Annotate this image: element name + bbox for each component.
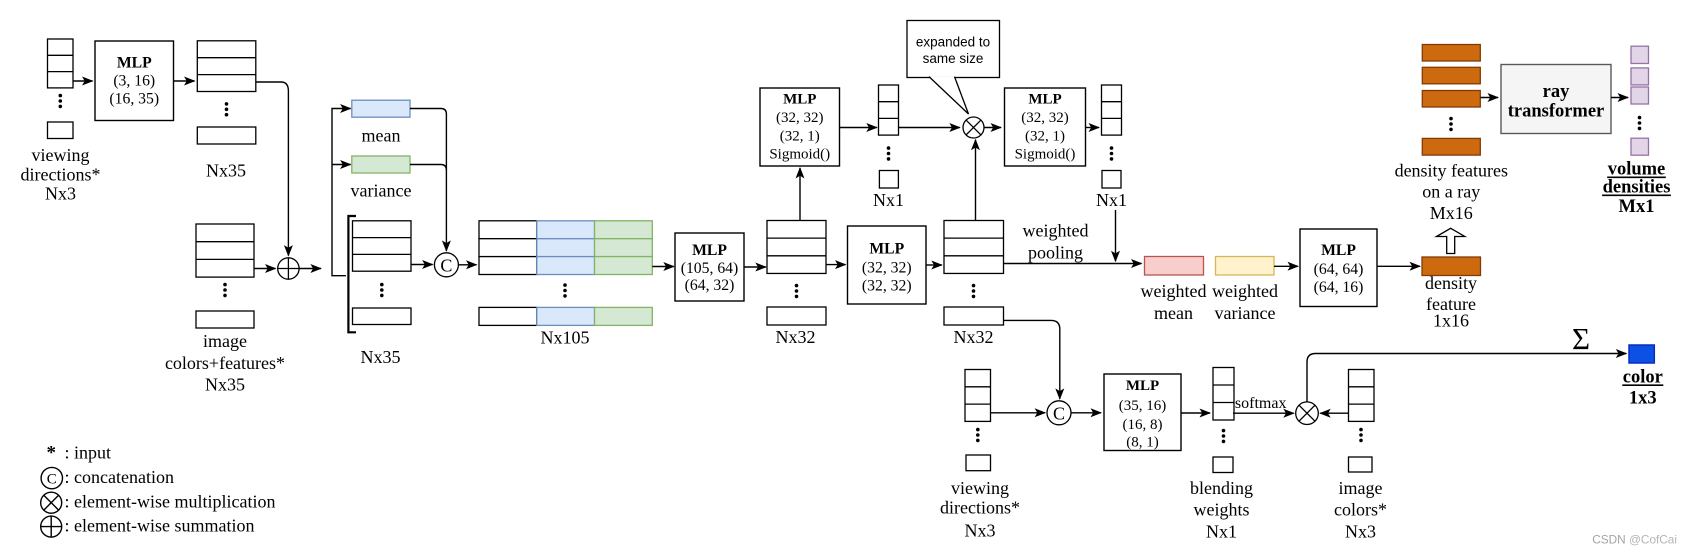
legend: element-wise summation symbol	[41, 516, 255, 538]
underline of volume label	[1607, 176, 1666, 178]
wire: bracketed stack to concatenation node C1	[411, 264, 433, 266]
svg-text:Nx3: Nx3	[1345, 522, 1376, 542]
svg-text:colors*: colors*	[1334, 500, 1387, 520]
svg-text:Nx1: Nx1	[873, 190, 904, 210]
svg-text:MLP: MLP	[1126, 378, 1159, 394]
svg-text:Nx1: Nx1	[1096, 190, 1127, 210]
svg-text:MLP: MLP	[783, 92, 816, 108]
svg-text:variance: variance	[1215, 303, 1276, 323]
svg-text:mean: mean	[1154, 303, 1193, 323]
label: variance	[351, 181, 412, 201]
svg-text:MLP: MLP	[1321, 242, 1356, 259]
MLP U6 (64,64)(64,16)	[1300, 229, 1377, 307]
wire: second Nx1 down to weighted pooling line	[1115, 210, 1117, 261]
wire: trunk branch to variance box	[332, 164, 351, 166]
wire: first Nx32 stack up to sigmoid MLP	[799, 168, 801, 221]
wire: Nx105 to MLP(105,64)(64,32)	[652, 266, 674, 268]
svg-text:(64, 64): (64, 64)	[1314, 261, 1364, 278]
ellipsis under Nx35 stack	[225, 102, 229, 116]
stack: viewing directions input Nx3	[48, 39, 74, 88]
svg-text:Mx1: Mx1	[1619, 197, 1655, 217]
svg-text:same size: same size	[923, 51, 984, 66]
svg-text:(32, 1): (32, 1)	[1025, 129, 1065, 145]
svg-text:weighted: weighted	[1212, 281, 1278, 301]
bracket enclosing Nx35 feature stack	[348, 216, 356, 332]
stack: image colors Nx3	[1349, 370, 1375, 422]
wire: variance box joining the same vertical wire	[410, 165, 446, 171]
svg-text:image: image	[1339, 478, 1383, 498]
svg-text:weighted: weighted	[1023, 221, 1089, 241]
label: weighted variance	[1212, 281, 1278, 323]
legend: * input	[47, 443, 111, 464]
element-wise multiplication node X2	[1296, 402, 1319, 425]
svg-text:ray: ray	[1543, 82, 1570, 102]
svg-text:1x3: 1x3	[1629, 388, 1657, 408]
ellipsis under viewing-directions stack	[59, 94, 63, 108]
wire: multiplication X2 up and right to color box (summation)	[1307, 354, 1626, 402]
wire: MLP(3,16) to Nx35 stack	[174, 80, 195, 82]
ellipsis under first Nx1 stack	[887, 146, 891, 160]
label: Nx32 (first)	[776, 327, 816, 347]
stack: blending weights Nx1	[1213, 368, 1234, 421]
svg-text:(32, 32): (32, 32)	[776, 110, 824, 126]
svg-text:: concatenation: : concatenation	[65, 467, 174, 487]
svg-text:(64, 16): (64, 16)	[1314, 279, 1364, 296]
MLP U5 (32,32)(32,32)	[848, 226, 927, 304]
concatenation node C2	[1047, 401, 1071, 425]
svg-text:mean: mean	[362, 126, 401, 146]
wire: first Nx32 to MLP(32,32)(32,32)	[826, 264, 846, 266]
mean box (blue)	[352, 100, 410, 117]
weighted mean box (pink)	[1145, 257, 1204, 276]
label: blending weights Nx1	[1190, 478, 1253, 542]
wire: MLP(64,64)(64,16) to density feature box	[1377, 265, 1420, 267]
svg-text:Nx35: Nx35	[206, 161, 246, 181]
stack: viewing directions (bottom) Nx3	[965, 370, 991, 422]
wire: concatenation C2 to MLP(35,16)(16,8)(8,1)	[1071, 412, 1101, 414]
stack: image colors+features Nx35	[196, 224, 254, 277]
single box: viewing directions extra row	[48, 122, 74, 139]
wire: sigmoid MLP U4 to second Nx1 stack	[1086, 127, 1100, 129]
ellipsis under blending weights stack	[1222, 429, 1226, 443]
ellipsis under first Nx32 stack	[795, 284, 799, 298]
single box: Nx35 extra row	[197, 127, 256, 144]
element-wise summation node (+)	[278, 258, 299, 279]
svg-text:directions*: directions*	[940, 498, 1020, 518]
single box: image colors+features extra row	[196, 311, 254, 328]
svg-text:(35, 16): (35, 16)	[1119, 398, 1167, 414]
stack: density features on a ray (orange bars)	[1422, 45, 1480, 108]
weighted variance box (yellow)	[1216, 257, 1275, 276]
label: Nx1 (first)	[873, 190, 904, 210]
svg-text:Nx3: Nx3	[965, 521, 996, 541]
svg-text:Nx32: Nx32	[954, 327, 994, 347]
ellipsis in volume densities	[1638, 116, 1642, 130]
svg-text:(64, 32): (64, 32)	[685, 277, 735, 294]
svg-text:(32, 32): (32, 32)	[1021, 110, 1069, 126]
callout: expanded to same size	[907, 21, 1000, 115]
label: density feature 1x16	[1425, 273, 1477, 331]
single box: second Nx1 extra row	[1102, 171, 1121, 189]
svg-text:blending: blending	[1190, 478, 1253, 498]
label: Nx1 (second)	[1096, 190, 1127, 210]
svg-text:weighted: weighted	[1141, 281, 1207, 301]
ellipsis under Nx105 stack	[563, 283, 567, 297]
wire: viewing-directions stack to MLP(3,16)(16,35)	[73, 80, 93, 82]
wire: weighted variance to MLP(64,64)(64,16)	[1274, 265, 1298, 267]
MLP U7 (35,16)(16,8)(8,1)	[1104, 374, 1181, 451]
wire: second Nx32 extra row to concatenation C2	[1003, 320, 1060, 399]
MLP U4 (32,32)(32,1) Sigmoid	[1005, 88, 1086, 166]
ellipsis under second Nx32 stack	[972, 284, 976, 298]
svg-text:Nx35: Nx35	[205, 374, 245, 394]
svg-text:(32, 32): (32, 32)	[862, 260, 912, 277]
ellipsis under bottom viewing-directions stack	[976, 428, 980, 442]
svg-text:*: *	[47, 443, 57, 464]
svg-text:CSDN @CofCai: CSDN @CofCai	[1592, 533, 1677, 547]
svg-text:(16, 35): (16, 35)	[109, 90, 159, 107]
single box: image colors extra row	[1349, 457, 1373, 472]
label: density features on a ray Mx16	[1395, 161, 1508, 224]
single box: bracketed stack extra row	[353, 308, 412, 325]
svg-text:MLP: MLP	[1028, 92, 1061, 108]
color box (blue)	[1629, 345, 1654, 363]
svg-text:: element-wise summation: : element-wise summation	[65, 516, 255, 536]
ellipsis under bracketed stack	[380, 283, 384, 297]
svg-text:(32, 32): (32, 32)	[862, 278, 912, 295]
MLP U2 (105,64)(64,32)	[675, 233, 744, 301]
svg-text:viewing: viewing	[32, 145, 90, 165]
svg-text:weights: weights	[1194, 500, 1250, 520]
svg-text:C: C	[47, 471, 57, 487]
wire: weighted pooling line to weighted mean box	[1004, 263, 1142, 265]
svg-text:C: C	[1053, 403, 1065, 423]
label: volume densities Mx1	[1603, 160, 1671, 218]
svg-text:Nx32: Nx32	[776, 327, 816, 347]
svg-text:Nx105: Nx105	[541, 328, 590, 348]
svg-text:(8, 1): (8, 1)	[1126, 435, 1159, 451]
stack: features Nx32 (second)	[944, 221, 1004, 274]
svg-text:variance: variance	[351, 181, 412, 201]
MLP U3 (32,32)(32,1) Sigmoid	[760, 88, 840, 166]
wire: second Nx32 stack up into multiplication X1	[975, 140, 977, 221]
wire: MLP(32,32)(32,32) to second Nx32 stack	[926, 264, 942, 266]
purple square: last volume density	[1631, 138, 1649, 155]
wire: MLP U7 to blending weights stack	[1181, 412, 1210, 414]
wire: concatenation C1 to Nx105 stack	[458, 264, 476, 266]
svg-text:(105, 64): (105, 64)	[681, 260, 739, 277]
svg-text:: input: : input	[65, 443, 112, 463]
density feature box (orange)	[1422, 257, 1481, 276]
svg-text:pooling: pooling	[1028, 243, 1083, 263]
legend: concatenation symbol	[41, 467, 174, 489]
svg-text:image: image	[203, 331, 247, 351]
concatenation node C1	[434, 253, 458, 277]
svg-text:1x16: 1x16	[1433, 311, 1469, 331]
svg-text:C: C	[440, 255, 452, 275]
ray transformer box	[1501, 65, 1611, 134]
svg-text:(16, 8): (16, 8)	[1123, 417, 1163, 433]
variance box (green)	[352, 156, 410, 173]
svg-text:Sigmoid(): Sigmoid()	[1015, 147, 1076, 163]
svg-text:expanded to: expanded to	[916, 35, 990, 50]
wire: blending weights (softmax) to multiplication X2	[1233, 412, 1294, 414]
svg-text:directions*: directions*	[21, 165, 101, 185]
stack: bracketed features Nx35	[353, 221, 412, 271]
svg-text:Nx3: Nx3	[45, 184, 76, 204]
svg-text:density: density	[1425, 273, 1477, 293]
single box: second Nx32 extra row	[944, 307, 1004, 325]
svg-text:MLP: MLP	[692, 242, 727, 259]
svg-text:Nx1: Nx1	[1206, 522, 1237, 542]
svg-text:(32, 1): (32, 1)	[780, 129, 820, 145]
label: Nx105	[541, 328, 590, 348]
svg-text:colors+features*: colors+features*	[165, 353, 285, 373]
element-wise multiplication node X1	[963, 117, 984, 138]
svg-text:softmax: softmax	[1235, 395, 1287, 412]
wire: image colors+features to summation node	[254, 268, 276, 270]
wire: ray transformer to volume densities	[1611, 97, 1628, 99]
ellipsis in density features on a ray	[1449, 117, 1453, 131]
svg-text:Mx16: Mx16	[1430, 203, 1473, 223]
svg-text:Nx35: Nx35	[361, 347, 401, 367]
svg-text:(3, 16): (3, 16)	[113, 73, 155, 90]
orange bar: last density feature on a ray	[1422, 138, 1480, 155]
svg-text:MLP: MLP	[869, 241, 904, 258]
svg-text:Sigmoid(): Sigmoid()	[769, 147, 830, 163]
label: Nx35 (direction features)	[206, 161, 246, 181]
wire: sigmoid MLP U3 to Nx1 stack	[840, 127, 877, 129]
wire: image colors stack into multiplication X2 (leftward)	[1320, 412, 1348, 414]
wire: first Nx1 stack to multiplication node X1	[899, 127, 960, 129]
label: viewing directions* Nx3 (bottom)	[940, 478, 1020, 541]
stack: concatenated features Nx105 (white/blue/green)	[479, 221, 652, 275]
svg-text:transformer: transformer	[1508, 102, 1605, 122]
single box: bottom viewing directions extra row	[966, 455, 991, 471]
wire: trunk vertical with branch to mean box	[332, 109, 351, 276]
stack: volume densities (purple squares)	[1631, 46, 1649, 104]
legend: element-wise multiplication symbol	[41, 492, 276, 514]
label: image colors+features* Nx35	[165, 331, 285, 394]
MLP U1 (3,16)(16,35)	[95, 41, 174, 121]
wire: MLP(105,64) to Nx32 stack	[744, 266, 766, 268]
single box: first Nx1 extra row	[879, 171, 898, 189]
single box: first Nx32 extra row	[767, 307, 826, 325]
label: Nx32 (second)	[954, 327, 994, 347]
stack: features Nx32 (first)	[767, 221, 826, 274]
ellipsis under image colors stack	[1359, 428, 1363, 442]
label: color 1x3	[1623, 368, 1663, 409]
hollow up arrow from density feature to ray stack	[1437, 228, 1465, 253]
wire: mean box to concatenation node C1	[410, 109, 446, 251]
stack: weights Nx1 (first)	[879, 85, 899, 135]
label: softmax	[1235, 395, 1287, 412]
label: weighted pooling	[1023, 221, 1089, 263]
svg-text:on a ray: on a ray	[1422, 182, 1480, 202]
svg-text:MLP: MLP	[117, 55, 152, 72]
svg-text:Σ: Σ	[1572, 321, 1590, 356]
ellipsis under second Nx1 stack	[1110, 146, 1114, 160]
wire: summation node output to mean/variance trunk	[299, 268, 321, 270]
wire: density features to ray transformer	[1481, 97, 1499, 99]
underline of color label	[1622, 384, 1663, 386]
stack: direction features Nx35	[197, 41, 256, 92]
wire: bottom viewing directions to concatenation C2	[991, 412, 1046, 414]
single row: Nx105 extra row (white/blue/green)	[479, 307, 652, 325]
single box: blending weights extra row	[1213, 457, 1233, 473]
label: weighted mean	[1141, 281, 1207, 323]
label: Nx35 (bracketed)	[361, 347, 401, 367]
svg-text:viewing: viewing	[951, 478, 1009, 498]
label: viewing directions* Nx3	[21, 145, 101, 204]
underline of densities label	[1602, 194, 1671, 196]
ellipsis under image colors+features stack	[223, 283, 227, 297]
svg-text:density features: density features	[1395, 161, 1508, 181]
label: mean	[362, 126, 401, 146]
label: image colors* Nx3	[1334, 478, 1387, 542]
svg-text:: element-wise multiplication: : element-wise multiplication	[65, 492, 276, 512]
wire: Nx35 stack right, down into summation node	[256, 82, 289, 256]
wire: multiplication X1 to sigmoid MLP U4	[984, 127, 1001, 129]
stack: weights Nx1 (second)	[1102, 85, 1122, 135]
